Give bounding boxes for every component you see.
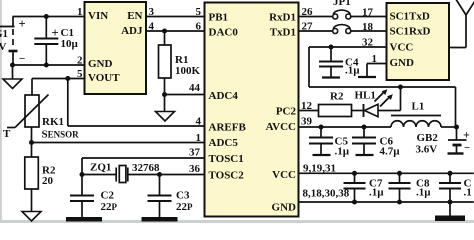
svg-text:+: + [463, 128, 470, 142]
svg-text:1: 1 [372, 53, 378, 65]
svg-text:ADC4: ADC4 [209, 90, 239, 102]
svg-text:PB1: PB1 [209, 12, 229, 24]
svg-text:PC2: PC2 [276, 106, 297, 118]
svg-text:20: 20 [42, 175, 54, 187]
svg-text:VCC: VCC [390, 42, 414, 54]
svg-text:3V: 3V [0, 41, 7, 53]
svg-text:−: − [19, 53, 25, 65]
svg-text:2: 2 [77, 55, 83, 67]
svg-text:RK1: RK1 [42, 116, 64, 128]
svg-text:22P: 22P [101, 201, 118, 213]
svg-text:SC1TxD: SC1TxD [390, 11, 430, 23]
svg-text:9,19,31: 9,19,31 [303, 163, 336, 175]
svg-text:ADC5: ADC5 [209, 137, 239, 149]
svg-text:100K: 100K [175, 65, 201, 77]
svg-text:4: 4 [149, 21, 155, 33]
svg-text:32768: 32768 [132, 162, 160, 174]
svg-text:TOSC1: TOSC1 [209, 153, 244, 165]
svg-text:HL1: HL1 [355, 90, 376, 102]
svg-text:GB2: GB2 [417, 132, 439, 144]
svg-text:AREFB: AREFB [209, 122, 247, 134]
svg-text:.1µ: .1µ [369, 187, 384, 199]
svg-text:GND: GND [272, 202, 297, 214]
svg-text:17: 17 [362, 7, 374, 19]
svg-text:DAC0: DAC0 [209, 27, 239, 39]
svg-text:+: + [52, 26, 59, 40]
svg-text:27: 27 [302, 21, 314, 33]
svg-text:.1µ: .1µ [335, 146, 350, 158]
svg-text:26: 26 [302, 6, 314, 18]
svg-text:AVCC: AVCC [266, 121, 296, 133]
svg-text:8,18,30,38: 8,18,30,38 [303, 188, 350, 200]
svg-text:18: 18 [362, 21, 374, 33]
svg-text:VCC: VCC [272, 169, 296, 181]
svg-text:5: 5 [77, 68, 83, 80]
svg-text:.1: .1 [464, 187, 472, 199]
svg-text:SC1RxD: SC1RxD [390, 26, 431, 38]
svg-text:TOSC2: TOSC2 [209, 170, 245, 182]
svg-text:36: 36 [189, 163, 201, 175]
svg-text:5: 5 [196, 6, 202, 18]
svg-text:JP1: JP1 [333, 0, 351, 8]
svg-text:32: 32 [362, 37, 374, 49]
svg-text:3.6V: 3.6V [416, 144, 438, 156]
svg-text:C2: C2 [101, 190, 115, 202]
svg-text:G1: G1 [0, 28, 8, 40]
svg-text:L1: L1 [412, 101, 425, 113]
svg-text:37: 37 [189, 147, 201, 159]
svg-text:GND: GND [390, 57, 415, 69]
svg-text:22P: 22P [176, 201, 193, 213]
svg-text:4: 4 [196, 116, 202, 128]
svg-text:C3: C3 [176, 190, 190, 202]
svg-text:39: 39 [301, 116, 313, 128]
svg-text:RxD1: RxD1 [269, 12, 296, 24]
svg-text:1: 1 [77, 6, 83, 18]
svg-text:GND: GND [88, 58, 113, 70]
svg-text:12: 12 [301, 100, 313, 112]
svg-text:6: 6 [196, 21, 202, 33]
svg-text:10µ: 10µ [61, 38, 79, 50]
svg-text:VIN: VIN [88, 10, 108, 22]
svg-text:+: + [19, 17, 26, 31]
svg-text:44: 44 [189, 82, 201, 94]
svg-text:SENSOR: SENSOR [42, 129, 80, 141]
svg-text:VOUT: VOUT [88, 72, 120, 84]
svg-text:EN: EN [127, 10, 142, 22]
svg-text:3: 3 [149, 6, 155, 18]
svg-text:−: − [464, 142, 470, 154]
svg-text:TxD1: TxD1 [270, 27, 296, 39]
svg-text:.1µ: .1µ [416, 187, 431, 199]
svg-text:ZQ1: ZQ1 [90, 162, 111, 174]
svg-text:ADJ: ADJ [121, 25, 143, 37]
svg-text:T: T [3, 128, 11, 140]
svg-text:1: 1 [196, 132, 202, 144]
svg-text:R2: R2 [330, 91, 344, 103]
svg-text:4.7µ: 4.7µ [380, 146, 401, 158]
svg-text:.1µ: .1µ [345, 65, 360, 77]
